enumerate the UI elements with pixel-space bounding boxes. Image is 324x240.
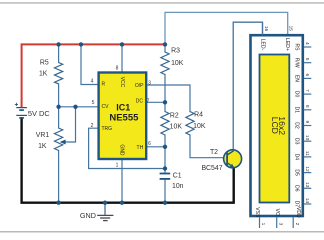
wire: timing line R2-C1	[164, 135, 166, 173]
svg-text:10K: 10K	[171, 60, 184, 67]
LCD bottom pin 1 VSS stub wire	[259, 217, 261, 228]
LCD 16x2 module body	[251, 35, 303, 216]
resistor R3 10K	[161, 52, 169, 75]
svg-text:LED+: LED+	[284, 38, 290, 51]
potentiometer VR1 1K	[54, 128, 62, 151]
battery 5V DC	[15, 103, 27, 118]
wire: C1 bottom to ground	[164, 179, 166, 203]
svg-text:VDD: VDD	[295, 207, 301, 218]
wire: blue rail to LCD LED+ pin15	[165, 12, 288, 44]
svg-text:GND: GND	[80, 211, 96, 220]
LCD right pin 10 D3 stub wire	[304, 140, 312, 142]
LCD right pin 4 RS stub wire	[304, 46, 312, 48]
wire: collector to LCD LED- pin16	[233, 22, 262, 150]
svg-text:RS: RS	[294, 44, 300, 52]
wire: pin8 VCC from rail	[121, 44, 123, 72]
svg-text:VSS: VSS	[254, 207, 260, 218]
junction: pin6 TH / R2-C1 node	[163, 145, 167, 149]
ground symbol	[104, 203, 106, 215]
svg-text:1: 1	[260, 223, 266, 226]
svg-text:TH: TH	[137, 145, 144, 151]
svg-text:NE555: NE555	[109, 112, 139, 123]
svg-text:D2: D2	[294, 122, 300, 129]
svg-text:D4: D4	[294, 154, 300, 161]
junction: pin7 DC / R3-R2 node	[163, 100, 167, 104]
LCD right pin 12 D5 stub wire	[304, 172, 312, 174]
transistor T2 BC547	[224, 150, 242, 168]
svg-text:R/W: R/W	[294, 58, 300, 68]
resistor R2 10K	[161, 112, 169, 136]
LCD right pin 11 D4 stub wire	[304, 156, 312, 158]
junction: CV wire / VR1 wiper	[73, 105, 77, 109]
svg-text:CV: CV	[102, 104, 110, 110]
svg-text:2: 2	[91, 123, 94, 129]
wire: +5V red rail	[22, 44, 165, 106]
svg-text:1: 1	[116, 162, 119, 168]
svg-text:3: 3	[148, 80, 151, 86]
wire: pin4 reset from rail	[81, 44, 98, 84]
svg-text:VCC: VCC	[119, 77, 125, 88]
LCD right pin 9 D2 stub wire	[304, 125, 312, 127]
svg-text:D0: D0	[294, 91, 300, 98]
svg-text:D3: D3	[294, 138, 300, 145]
svg-text:12: 12	[304, 166, 310, 172]
capacitor C1 10n	[160, 174, 171, 179]
wire: R5/VR1 vertical from rail to ground	[58, 44, 60, 62]
svg-text:IC1: IC1	[116, 102, 130, 112]
wire: pin1 GND down	[121, 159, 123, 203]
svg-text:VR1: VR1	[36, 132, 50, 139]
svg-text:16: 16	[263, 26, 269, 32]
junction: +5V rail / pin8 VCC wire	[120, 42, 124, 46]
VR1 wiper arrowhead	[60, 140, 66, 145]
junction: +5V rail / R5 top	[56, 42, 60, 46]
svg-text:R5: R5	[40, 59, 49, 66]
svg-text:15: 15	[287, 26, 293, 32]
wire: timing line R3 top	[164, 44, 166, 52]
frame top line	[0, 2, 324, 3]
junction: TRG wire / C1 top node	[163, 166, 167, 170]
resistor R5 1K	[54, 63, 62, 84]
junction: R5-VR1 / CV wire	[56, 105, 60, 109]
wire: black ground bus	[22, 119, 234, 203]
svg-text:16x2: 16x2	[277, 116, 287, 135]
svg-text:5V DC: 5V DC	[28, 109, 50, 118]
junction: +5V rail / pin4 reset wire	[79, 42, 83, 46]
svg-text:8: 8	[116, 66, 119, 72]
LCD right pin 5 R/W stub wire	[304, 62, 312, 64]
junction: ground bus / C1 bottom	[163, 201, 167, 205]
svg-text:EN: EN	[294, 75, 300, 82]
svg-text:2: 2	[294, 223, 300, 226]
LCD bottom pin 2 VDD stub wire	[292, 217, 294, 228]
svg-text:3: 3	[277, 223, 283, 226]
wire: pin6 TH stub	[147, 146, 166, 148]
frame bottom line	[0, 231, 324, 232]
svg-text:4: 4	[304, 42, 310, 45]
svg-text:1K: 1K	[39, 71, 48, 78]
svg-text:BC547: BC547	[201, 165, 222, 172]
svg-text:5: 5	[92, 100, 95, 106]
svg-text:GND: GND	[118, 144, 124, 156]
svg-text:R: R	[102, 81, 106, 87]
svg-text:7: 7	[304, 89, 310, 92]
wire: VR1 wiper	[62, 107, 76, 142]
svg-text:O/P: O/P	[135, 83, 144, 89]
svg-text:5: 5	[304, 58, 310, 61]
junction: ground bus / pin1 GND wire	[120, 201, 124, 205]
svg-text:R2: R2	[170, 113, 179, 120]
wire: pin2 TRG loop to TH/C1 node	[89, 128, 165, 168]
svg-text:R3: R3	[171, 47, 180, 54]
svg-text:13: 13	[304, 182, 310, 188]
svg-text:T2: T2	[210, 149, 218, 156]
wire: R4 bottom to base	[190, 135, 227, 158]
svg-text:R4: R4	[194, 112, 203, 119]
svg-text:VO: VO	[274, 209, 280, 216]
wire: pin7 DC stub	[147, 101, 166, 103]
svg-text:6: 6	[304, 73, 310, 76]
svg-text:11: 11	[304, 151, 310, 156]
svg-text:9: 9	[304, 121, 310, 124]
junction: ground bus / GND symbol	[103, 201, 107, 205]
LCD right pin 6 EN stub wire	[304, 77, 312, 79]
svg-text:7: 7	[147, 98, 150, 104]
svg-text:10K: 10K	[193, 123, 206, 130]
LCD right pin 8 D1 stub wire	[304, 109, 312, 111]
svg-text:6: 6	[148, 141, 151, 147]
svg-text:D6: D6	[294, 185, 300, 192]
svg-text:4: 4	[91, 79, 94, 85]
svg-text:D1: D1	[294, 107, 300, 114]
timer IC1 NE555 body	[99, 73, 147, 160]
LCD screen	[260, 55, 290, 203]
junction: ground bus / VR1 bottom	[56, 201, 60, 205]
svg-text:1K: 1K	[38, 143, 47, 150]
LCD right pin 14 D7 stub wire	[304, 203, 312, 205]
svg-text:TRG: TRG	[102, 126, 113, 132]
wire: pin3 O/P to R4	[147, 85, 191, 112]
svg-text:14: 14	[304, 198, 310, 204]
svg-text:DC: DC	[136, 99, 144, 105]
LCD right pin 7 D0 stub wire	[304, 93, 312, 95]
svg-text:LED-: LED-	[259, 39, 265, 51]
resistor R4 10K	[186, 112, 194, 136]
svg-text:D5: D5	[294, 169, 300, 176]
svg-text:10: 10	[304, 135, 310, 141]
wire: CV pin5 horizontal	[59, 106, 99, 108]
LCD bottom pin 3 VO stub wire	[276, 217, 278, 228]
svg-text:10n: 10n	[172, 183, 184, 190]
LCD pin16 LED- stub wire	[262, 22, 264, 35]
LCD right pin 13 D6 stub wire	[304, 187, 312, 189]
node: +5V rail / R3 / LED+ rail	[163, 42, 167, 46]
svg-text:8: 8	[304, 105, 310, 108]
svg-text:C1: C1	[173, 172, 182, 179]
wire: timing line R3-R2	[164, 75, 166, 112]
svg-text:10K: 10K	[170, 124, 183, 131]
